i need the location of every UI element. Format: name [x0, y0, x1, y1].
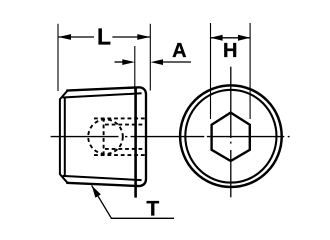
dimension T arrowhead	[92, 185, 101, 197]
dimension T leader line	[92, 185, 174, 218]
dimension H line	[211, 37, 251, 39]
small end top chamfer	[60, 91, 68, 100]
plug body: thread crest bottom line	[66, 183, 140, 186]
end view vertical centerline upper segment	[230, 67, 232, 138]
hidden socket hex inner top line	[105, 124, 146, 126]
dimension A left extension line	[134, 46, 136, 91]
dimension A right arrowhead	[151, 59, 164, 65]
plug small end face	[59, 99, 61, 174]
plug body: thread crest top line	[66, 87, 140, 90]
small end bottom chamfer	[60, 174, 68, 183]
dimension L line left segment	[58, 36, 94, 38]
plug small end chamfer tangent line	[64, 97, 66, 176]
dimension A right arrow tail	[160, 61, 191, 63]
large end face with rounded corners	[140, 87, 146, 186]
dimension H right extension line	[249, 23, 251, 119]
dimension H right arrowhead	[238, 35, 250, 41]
dimension L left extension line	[57, 24, 59, 91]
hidden socket hex inner bottom line	[105, 148, 146, 150]
hidden socket bottom vertical line	[103, 118, 105, 156]
dimension H left extension line	[210, 23, 212, 119]
end view vertical centerline lower segment	[230, 150, 232, 197]
hex socket hexagon	[212, 113, 250, 161]
plug body: thread root top line	[63, 93, 142, 97]
dimension L / A shared right extension line	[149, 24, 151, 91]
svg-text:T: T	[146, 198, 159, 221]
svg-text:A: A	[172, 40, 186, 62]
side view: horizontal centerline	[51, 136, 290, 138]
dimension L line right segment	[112, 36, 150, 38]
end view outer circle	[180, 85, 282, 187]
large end thread runout line	[134, 87, 137, 198]
plug body: thread root bottom line	[63, 176, 142, 180]
dimension A left arrowhead	[122, 59, 135, 65]
svg-text:L: L	[97, 24, 111, 50]
svg-text:H: H	[223, 40, 237, 62]
dimension H left arrowhead	[210, 35, 222, 41]
end view vertical centerline center dot	[230, 142, 232, 144]
hidden socket drill outer bottom line	[94, 154, 146, 156]
end view chamfer inner circle	[185, 90, 276, 183]
hidden socket drill outer top line	[94, 117, 146, 119]
dimension A left arrow tail	[115, 61, 126, 63]
dimension L right arrowhead	[137, 34, 150, 40]
hidden drill point circle	[88, 119, 123, 154]
dimension L left arrowhead	[58, 34, 71, 40]
